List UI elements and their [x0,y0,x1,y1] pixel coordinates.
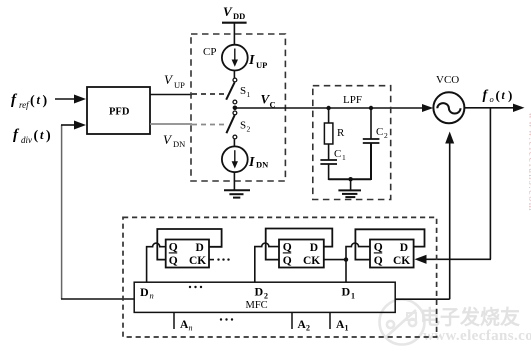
wire FF1 toggle loop [157,229,221,260]
wire LPF bottom [329,178,371,180]
wire f_div feedback vertical [61,125,63,299]
svg-text:VCO: VCO [436,74,459,86]
arrow up into VCO [445,132,454,144]
svg-text:): ) [43,94,48,109]
wire FF3 toggle loop [355,229,424,259]
wire junction to C2 [370,108,372,139]
node S2 label [240,120,251,134]
svg-text:www.elecfans.com: www.elecfans.com [526,112,531,212]
svg-text:1: 1 [345,324,349,333]
flip-flop FF3 [370,240,414,268]
svg-text:n: n [150,291,154,301]
svg-text:): ) [46,129,51,144]
wire junction down to D1 [345,260,347,283]
block PFD [87,87,150,134]
current source I_DN [222,146,248,172]
node V_UP label [164,72,185,90]
wire FF1 CK stub and dots [209,259,214,261]
svg-text:D: D [400,242,408,254]
wire FF2 Q out with hop [255,243,279,282]
wire A_1 tick [329,312,331,329]
svg-text:2: 2 [247,125,251,134]
node f_ref label [11,92,48,110]
svg-text:CK: CK [189,255,206,267]
block MFC [134,282,395,312]
svg-text:D: D [140,285,149,299]
svg-text:1: 1 [247,90,251,99]
svg-text:C: C [334,148,341,160]
wire V_UP dashed control [192,93,226,95]
capacitor C1 [320,160,337,164]
node C2 label [376,126,388,140]
svg-text:n: n [189,324,193,333]
ground CP [224,190,250,197]
svg-text:(: ( [34,129,39,144]
svg-text:Q: Q [374,255,383,267]
watermark logo circle bottom right [380,300,425,345]
svg-text:t: t [37,93,41,107]
wire C1 to bottom [328,164,330,180]
node dots MFC top [189,286,202,288]
svg-text:2: 2 [384,131,388,140]
power rail V_DD [222,22,247,24]
oscillator VCO [433,92,464,123]
svg-text:1: 1 [342,153,346,162]
svg-text:S: S [240,85,246,97]
wire A_n tick [173,312,175,329]
svg-text:Q: Q [169,255,178,267]
arrow f_o output [513,104,525,112]
svg-text:R: R [337,127,345,139]
node f_div label [13,127,51,145]
wire V_DN dashed control gray [192,124,226,126]
node I_UP label [248,53,267,70]
svg-text:DN: DN [256,160,269,170]
arrow into VCO [422,104,433,112]
svg-text:CK: CK [303,255,320,267]
wire R to C1 [328,144,330,160]
node LPF right junction [369,106,373,110]
node f_o label [483,88,513,105]
wire f_div input arrow [61,121,86,130]
wire feedback bottom horizontal to MFC [61,298,134,300]
current source I_UP [222,45,248,71]
svg-text:2: 2 [264,292,268,301]
svg-text:1: 1 [351,292,355,301]
node D_n label [140,285,154,301]
wire MFC out up to VCO (line A) [449,142,451,299]
svg-text:D: D [310,242,318,254]
node A_2 label [298,319,311,333]
wire I_UP to S1 [233,71,235,79]
wire V_DD to I_UP [233,23,235,45]
node I_DN label [248,155,269,170]
node V_C label [261,92,276,110]
svg-text:PFD: PFD [109,107,130,118]
capacitor C2 [363,139,380,143]
svg-text:CP: CP [203,46,216,58]
divider dashed box [123,217,437,337]
wire to ground LPF [350,179,352,190]
wire output junction down (line B) [489,108,491,259]
svg-text:Q: Q [283,255,292,267]
switch S2 [226,111,236,139]
svg-text:t: t [40,128,44,142]
wire to CK of FF3 [425,258,491,260]
svg-text:Q: Q [169,241,178,253]
svg-text:I: I [248,53,255,68]
wire I_DN to ground [233,172,235,190]
svg-text:电子发烧友: 电子发烧友 [420,305,520,329]
svg-text:D: D [255,285,264,299]
svg-text:C: C [376,126,383,138]
node S1 label [240,85,251,99]
flip-flop FF2 [279,240,324,268]
node D_1 label [342,285,356,301]
wire FF3 Q out with hop to junction [346,243,370,260]
svg-text:Q: Q [374,241,383,253]
svg-text:2: 2 [306,324,310,333]
resistor R [324,123,333,144]
svg-text:I: I [248,155,255,170]
node V_DD label [223,4,245,21]
node A_n label [180,319,193,333]
wire V_C main horizontal to VCO [237,107,424,109]
wire V_DN solid gray [150,123,192,125]
wire MFC right edge to line A [395,298,450,300]
flip-flop FF1 [166,240,209,268]
charge pump dashed box CP [191,34,285,181]
svg-text:(: ( [30,94,35,109]
wire V_UP solid [150,94,192,96]
node A_1 label [336,319,349,333]
svg-text:DN: DN [173,139,185,149]
wire FF2 CK to junction [324,259,346,261]
node V_DN label [163,132,185,149]
node C1 label [334,148,346,162]
svg-text:div: div [21,135,32,145]
svg-text:Q: Q [283,241,292,253]
svg-text:LPF: LPF [343,94,362,106]
svg-text:www.elecfans.com: www.elecfans.com [423,328,531,344]
wire f_ref input arrow [55,95,86,104]
svg-text:D: D [342,285,351,299]
node LPF left junction [326,106,330,110]
node LPF bottom junction [348,177,352,181]
switch S1 [226,78,237,104]
wire FF1 Q out with hop [147,243,166,282]
wire VCO output [464,107,515,109]
node dots A row [220,318,233,320]
svg-text:CK: CK [393,255,410,267]
wire C2 to bottom [370,143,372,180]
svg-text:S: S [240,120,246,132]
svg-text:MFC: MFC [246,300,268,311]
arrow into CK FF3 [415,255,427,264]
svg-text:UP: UP [256,60,267,70]
svg-text:(: ( [496,88,500,103]
svg-text:D: D [196,242,204,254]
svg-text:o: o [490,94,494,104]
wire A_2 tick [291,312,293,329]
LPF dashed box [313,86,391,200]
svg-text:V: V [223,4,233,19]
wire junction to R [328,108,330,123]
node D_2 label [255,285,269,301]
wire S2 to I_DN [233,139,235,147]
svg-text:ref: ref [19,100,30,110]
svg-text:): ) [508,88,512,103]
wire FF2 toggle loop [266,229,333,260]
ground LPF [338,190,361,197]
svg-text:DD: DD [233,11,245,21]
node V_C junction dot [233,106,238,111]
svg-text:UP: UP [174,80,185,90]
node junction D1 [344,257,348,261]
